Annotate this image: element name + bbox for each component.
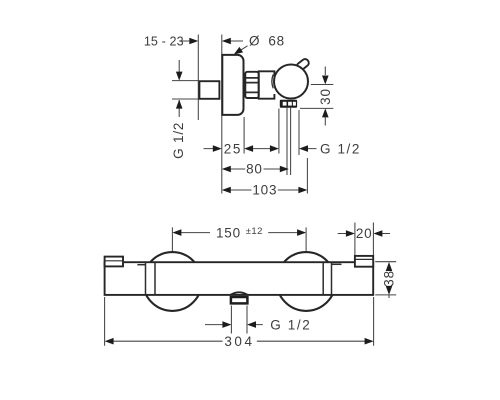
svg-text:15 - 23: 15 - 23 (144, 34, 184, 48)
outlet pipe lines going down (287, 108, 291, 175)
extension line disc face (x=221.8) (221, 35, 223, 194)
G1/2 left dim line vertical (178, 60, 180, 117)
dim 30 ext lines right (300, 85, 333, 109)
arrow 38 bottom (386, 286, 393, 295)
arrow 25 left (213, 145, 222, 152)
arrow 20 left (346, 230, 355, 237)
arrow 103 right (298, 187, 307, 194)
dim 38 vertical (388, 295, 390, 298)
ext lines 38 (375, 262, 396, 295)
dim G1/2 bottom tails (205, 324, 263, 326)
ext lines 304 (105, 297, 374, 346)
ext line outlet right (x=299) (298, 110, 300, 155)
svg-text:G 1/2: G 1/2 (320, 141, 361, 156)
arrow 150 right (297, 229, 306, 236)
arrow 30 top (322, 76, 329, 85)
dim 80 (y=169) (230, 168, 280, 170)
outlet white notch 2 (288, 102, 292, 106)
left union cap (105, 257, 123, 267)
svg-text:38: 38 (381, 270, 396, 287)
escutcheon disc (222, 55, 243, 115)
arrow 38 top (386, 262, 393, 271)
dim 20 tails (338, 233, 390, 235)
arrow down to pipe top (176, 72, 183, 81)
arrow 30 bottom (322, 108, 329, 117)
bottom outlet nut (231, 297, 248, 303)
right cap inner line (355, 258, 373, 260)
handle knob circle (274, 65, 308, 99)
svg-text:80: 80 (246, 162, 263, 177)
dim 304 line (113, 340, 365, 342)
arrow up to pipe bottom (176, 100, 183, 109)
leader arrow d68 (232, 47, 243, 57)
svg-text:20: 20 (356, 226, 373, 241)
svg-text:304: 304 (224, 334, 254, 349)
dim 25 row (y=148.6) (204, 148, 317, 150)
svg-text:G 1/2: G 1/2 (270, 317, 311, 332)
wall supply pipe (199, 81, 219, 99)
svg-text:150: 150 (216, 225, 241, 240)
outlet white notch 1 (283, 102, 287, 106)
arrow 15-23 left (189, 38, 198, 45)
arrow G1/2 bottom right (247, 321, 256, 328)
dim 30 vertical line (324, 67, 326, 126)
bar body (105, 262, 374, 295)
ext line outlet left (x=278.9) (278, 109, 280, 154)
shower outlet nut (black) (280, 100, 297, 108)
ext lines 20 down to cap (355, 223, 374, 256)
handle collar arc (272, 75, 273, 89)
pipe ext lines (y=80.6, y=99) (172, 81, 198, 99)
svg-text:103: 103 (252, 183, 277, 198)
valve body (259, 71, 275, 98)
right handle circle (277, 252, 336, 311)
handle lever nub (295, 58, 310, 72)
outlet dome (231, 292, 248, 295)
arrow 304 left (105, 338, 114, 345)
ext line right circle centre (x=306.1) (305, 227, 307, 251)
outlet white notch 3 (293, 102, 296, 106)
svg-text:Ø 68: Ø 68 (249, 34, 285, 49)
arrow 20 right (373, 230, 382, 237)
svg-text:25: 25 (224, 141, 242, 156)
arrow G1/2 bottom left (222, 321, 231, 328)
leader line d68 (237, 46, 248, 53)
ext line handle front (x=307.4) (306, 158, 308, 194)
arrow G1/2 outlet left (270, 145, 279, 152)
svg-text:30: 30 (318, 88, 333, 105)
dimension 15-23 line (182, 40, 244, 42)
svg-text:±12: ±12 (246, 226, 263, 237)
arrow 304 right (365, 338, 374, 345)
extension line wall (x=198) (197, 35, 199, 121)
arrow 25 right (244, 145, 253, 152)
mounting nut (245, 72, 258, 98)
left tick (137, 264, 145, 266)
arrow 150 left (172, 229, 181, 236)
ext line disc right face (x=244.1) (243, 117, 245, 154)
svg-text:G 1/2: G 1/2 (171, 122, 186, 159)
right body joint lines (323, 263, 331, 295)
arrow 80 left (222, 166, 231, 173)
left cap inner line (105, 260, 123, 262)
dim 150 line (181, 232, 298, 234)
ext lines below outlet (231, 306, 247, 334)
arrow 80 right (280, 166, 289, 173)
right union cap (355, 256, 373, 267)
arrow 15-23 right (222, 38, 231, 45)
arrow 103 left (222, 187, 231, 194)
left handle circle (143, 252, 202, 311)
right tick (332, 263, 342, 265)
left body joint lines (146, 263, 156, 295)
ext line left circle centre (x=172.4) (171, 227, 173, 251)
dim 103 (y=190) (230, 189, 298, 191)
arrow G1/2 outlet right (299, 145, 308, 152)
mounting nut ribs (246, 78, 258, 93)
